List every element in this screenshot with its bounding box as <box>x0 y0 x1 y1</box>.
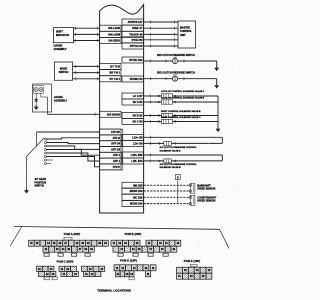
wire shift indicator row 3 <box>74 40 100 42</box>
wire contact 5 to ATP 1 <box>46 153 99 161</box>
shift solenoid coil 3 <box>158 115 160 117</box>
wire S/A DIAG <box>47 113 99 115</box>
wire clutch pc solenoid bottom SOLENOID VALVE B <box>144 160 223 162</box>
svg-text:LZA+ B5: LZA+ B5 <box>132 136 143 140</box>
svg-text:SPEED SENSOR: SPEED SENSOR <box>197 201 215 203</box>
svg-text:MC D16: MC D16 <box>133 195 143 199</box>
svg-text:SPEED SENSOR: SPEED SENSOR <box>197 189 215 191</box>
switch contact 8 <box>44 163 46 165</box>
terminal panel right cut mark <box>220 229 230 248</box>
wire PCM to MCU row 1 <box>144 21 178 23</box>
indicator lamp cluster <box>34 86 44 94</box>
svg-text:B: B <box>177 176 179 179</box>
wire clutch pc solenoid top SOLENOID VALVE B <box>144 154 223 156</box>
pin ATP P <box>100 164 121 170</box>
pin ATP 1 <box>100 158 121 164</box>
ground 3rd clutch pressure switch <box>216 84 218 86</box>
pin LZB+ B35 <box>122 152 144 158</box>
terminal panel top border <box>14 227 220 230</box>
clutch pc solenoid loop SOLENOID VALVE A <box>221 137 223 143</box>
wire PCM to MCU row 2 <box>144 27 178 29</box>
shift indicator box <box>54 28 74 43</box>
connector PCM E row 1 <box>177 267 183 273</box>
connector PCM D row 1 <box>114 265 120 271</box>
svg-text:3RD CLUTCH PRESSURE SWITCH: 3RD CLUTCH PRESSURE SWITCH <box>157 73 195 75</box>
ground 2nd clutch pressure switch <box>216 66 218 68</box>
pin BB T-N1 <box>100 70 121 76</box>
wire mainshaft speed sensor + <box>144 184 191 186</box>
connector PCM E latch <box>191 264 198 266</box>
wire shift indicator row 2 <box>74 33 100 35</box>
connector PCM A row 1 <box>29 240 35 246</box>
pin BY T-N1 <box>100 76 121 82</box>
svg-text:SH C B3: SH C B3 <box>133 120 144 124</box>
svg-text:BY T-N 1: BY T-N 1 <box>110 77 121 81</box>
pin MC D16 <box>122 194 144 200</box>
master control unit box <box>178 21 196 48</box>
pin ATP D4 <box>100 141 121 147</box>
pin PTOH B6 <box>122 37 144 43</box>
wire contact 1 to ATP R <box>46 138 99 139</box>
lamp wiring <box>35 93 37 99</box>
connector PCM C tabs <box>44 277 49 280</box>
PCM control module outline <box>100 5 144 213</box>
connector PCM B tabs <box>118 253 123 256</box>
connector PCM A row 2 <box>43 246 49 252</box>
pin VREF A7 <box>122 25 144 31</box>
wire contact 3 to ATP D3 <box>46 146 99 149</box>
pin GN-LADN <box>100 25 121 31</box>
wire contact 8 stub <box>46 163 51 165</box>
svg-text:ASSEMBLY: ASSEMBLY <box>54 48 67 51</box>
wire contact 7 stub <box>46 159 53 161</box>
connector PCM D row 2 <box>116 271 121 277</box>
pin LC-A B7 <box>122 93 144 99</box>
svg-text:VREF A7: VREF A7 <box>132 26 143 30</box>
countershaft speed sensor symbol <box>190 195 195 205</box>
pin XPSW1 B4 <box>122 76 144 82</box>
svg-text:SHIFT CONTROL SOLENOID VALVE B: SHIFT CONTROL SOLENOID VALVE B <box>161 110 201 113</box>
pin SH-A B1 <box>122 99 144 105</box>
svg-text:PCM C (31P): PCM C (31P) <box>57 259 74 263</box>
svg-text:SHIFT CONTROL SOLENOID VALVE C: SHIFT CONTROL SOLENOID VALVE C <box>161 116 201 119</box>
wire clutch pc solenoid top SOLENOID VALVE A <box>144 136 223 138</box>
svg-text:PCM E (16P): PCM E (16P) <box>184 259 201 263</box>
pin GN-JEDG <box>100 38 121 44</box>
ATP pin group frame <box>100 129 123 170</box>
clutch pc solenoid loop SOLENOID VALVE B <box>221 155 223 161</box>
shield drain wire <box>177 180 179 204</box>
svg-text:TERMINAL LOCATIONS: TERMINAL LOCATIONS <box>97 289 131 293</box>
pin SH-B B2 <box>122 113 144 119</box>
wire lock-up solenoid row 1 <box>144 95 218 97</box>
svg-text:SH A B1: SH A B1 <box>133 100 143 104</box>
wire contact 2 to ATP D4 <box>46 143 99 144</box>
svg-text:LZB+ B35: LZB+ B35 <box>131 153 143 157</box>
wire countershaft speed sensor + <box>144 196 191 198</box>
svg-text:ATP D3: ATP D3 <box>111 147 120 151</box>
svg-text:SH B B2: SH B B2 <box>133 114 144 118</box>
pin ATP NP <box>100 129 121 135</box>
wire contact 4 to ATP 2 <box>46 150 99 156</box>
pin BY T4B <box>100 63 121 69</box>
connector PCM B row 2 <box>113 246 119 252</box>
pin TN-SUP A6 <box>122 31 144 37</box>
wire 3rd clutch pressure switch <box>144 78 217 80</box>
pin ATP D3 <box>100 146 121 152</box>
switch contact 6 <box>44 156 46 158</box>
pin ATP 2 <box>100 152 121 158</box>
wire PCM to MCU row 5 <box>144 45 178 47</box>
svg-text:SOLENOID VALVE B: SOLENOID VALVE B <box>160 166 182 169</box>
pin ATP R <box>100 135 121 141</box>
3rd clutch pressure switch symbol <box>172 76 177 81</box>
svg-text:CONTROL: CONTROL <box>180 30 192 33</box>
connector PCM E row 2 <box>177 273 183 279</box>
wire shift solenoid row 4 <box>144 121 218 123</box>
svg-text:GN-JEDG: GN-JEDG <box>108 39 120 43</box>
gauge assembly box <box>33 84 52 112</box>
pin ATP5TB A17 <box>122 19 144 25</box>
pin PPTOH D3 <box>122 43 144 49</box>
diode <box>35 99 38 102</box>
pin XPT2H D12 <box>122 57 144 63</box>
svg-text:PCM D (16P): PCM D (16P) <box>120 259 137 263</box>
svg-text:BY T4 B: BY T4 B <box>110 64 120 68</box>
svg-text:MKSB D10: MKSB D10 <box>130 189 143 193</box>
wire drop to ground 3rd clutch <box>216 79 218 84</box>
clutch pc solenoid coil SOLENOID VALVE B <box>159 160 161 162</box>
pin MZSB D16 <box>122 201 144 207</box>
shield junction box B <box>175 175 180 180</box>
wire PCM to MCU row 4 <box>144 39 178 41</box>
2nd clutch pressure switch symbol <box>172 58 177 63</box>
svg-text:PPTOH D3: PPTOH D3 <box>130 44 143 48</box>
connector PCM D tab <box>129 277 134 280</box>
svg-text:ATP 2: ATP 2 <box>113 153 121 157</box>
wire clutch pc solenoid bottom SOLENOID VALVE A <box>144 142 223 144</box>
svg-text:ATP R: ATP R <box>113 136 121 140</box>
svg-text:S/A DIAGB: S/A DIAGB <box>107 112 120 116</box>
wire shift indicator row 1 <box>74 27 100 29</box>
ground solenoid valves <box>217 127 219 129</box>
svg-text:PCM A (32P): PCM A (32P) <box>64 232 80 236</box>
mainshaft speed sensor symbol <box>190 183 195 193</box>
switch arm <box>27 138 45 157</box>
pin LZB- B45 <box>122 158 144 164</box>
svg-text:ATP NP: ATP NP <box>111 130 120 134</box>
svg-text:PTOH B6: PTOH B6 <box>132 38 144 42</box>
svg-text:ATP 1: ATP 1 <box>113 159 121 163</box>
svg-text:COUNTERSHAFT: COUNTERSHAFT <box>197 196 217 199</box>
switch ground wire <box>26 157 28 190</box>
ground inside gauge assembly <box>35 105 37 107</box>
svg-text:ASSEMBLY: ASSEMBLY <box>54 99 67 102</box>
switch contact 4 <box>44 149 46 151</box>
solenoid ground bus <box>217 96 219 128</box>
wire mainshaft speed sensor - <box>144 190 191 192</box>
lamp output wire <box>40 93 42 97</box>
svg-text:A/T CLUTCH PRESSURE CONTROL: A/T CLUTCH PRESSURE CONTROL <box>160 163 198 166</box>
svg-text:SOLENOID VALVE A: SOLENOID VALVE A <box>160 150 182 153</box>
svg-text:SWITCH: SWITCH <box>59 71 69 74</box>
svg-text:LOCK-UP CONTROL SOLENOID VALVE: LOCK-UP CONTROL SOLENOID VALVE A <box>161 90 204 93</box>
svg-text:LC A B7: LC A B7 <box>133 94 143 98</box>
svg-text:ATP5TB A17: ATP5TB A17 <box>128 20 144 24</box>
svg-text:GN-LADN: GN-LADN <box>108 26 120 30</box>
lock-up solenoid coil 2 <box>158 101 160 103</box>
pin S/A DIAGB <box>100 111 121 117</box>
svg-text:XPSW1 B4: XPSW1 B4 <box>130 77 143 81</box>
shift solenoid coil 4 <box>158 121 160 123</box>
svg-text:ATP P: ATP P <box>113 165 121 169</box>
clutch pc solenoid coil SOLENOID VALVE A <box>159 143 161 145</box>
svg-text:BB T-N 1: BB T-N 1 <box>109 71 120 75</box>
svg-text:MASTER: MASTER <box>180 27 190 30</box>
wire PCM to MCU row 3 <box>144 33 178 35</box>
wire drop to ground 2nd clutch <box>216 61 218 67</box>
wire contact 6 to ATP P <box>46 157 99 167</box>
mode switch box <box>54 62 72 80</box>
wire countershaft speed sensor - <box>144 203 191 205</box>
wire lock-up solenoid row 2 <box>144 101 218 103</box>
svg-text:INDICATOR: INDICATOR <box>56 34 69 37</box>
pin LZA+ B5 <box>122 135 144 141</box>
connector PCM A tabs <box>44 253 49 256</box>
svg-text:PCM B (26P): PCM B (26P) <box>125 232 142 236</box>
pin MKSB D10 <box>122 188 144 194</box>
ground A/T gear position switch <box>26 189 28 191</box>
svg-text:LZB- B45: LZB- B45 <box>131 159 143 163</box>
wire mode switch row 2 <box>73 72 100 74</box>
A/T gear position switch common wire <box>37 131 100 133</box>
switch contact 3 <box>44 145 46 147</box>
switch contact 7 <box>44 159 46 161</box>
pin GN-LADM <box>100 31 121 37</box>
connector PCM A latch <box>64 237 72 240</box>
switch contact 1 <box>44 138 46 140</box>
connector PCM C row 1 <box>37 266 43 271</box>
svg-text:SWITCH: SWITCH <box>35 185 45 188</box>
svg-text:LOCK-UP CONTROL SOLENOID VALVE: LOCK-UP CONTROL SOLENOID VALVE B <box>161 97 205 100</box>
svg-text:A/T CLUTCH PRESSURE CONTROL: A/T CLUTCH PRESSURE CONTROL <box>160 146 198 149</box>
pin SH-C B3 <box>122 119 144 125</box>
terminal panel left cut mark <box>10 227 22 247</box>
connector PCM B row 1 <box>111 240 117 246</box>
pin LZA- B6 <box>122 141 144 147</box>
svg-text:2ND CLUTCH PRESSURE SWITCH: 2ND CLUTCH PRESSURE SWITCH <box>157 55 195 57</box>
svg-text:MZSB D16: MZSB D16 <box>130 202 143 206</box>
connector PCM C row 2 <box>39 271 45 276</box>
svg-text:XPT2H D12: XPT2H D12 <box>129 58 143 62</box>
wire 2nd clutch pressure switch <box>144 60 217 62</box>
wire shift solenoid row 3 <box>144 115 218 117</box>
wire mode switch row 1 <box>73 65 100 67</box>
svg-text:TN-SUP A6: TN-SUP A6 <box>129 32 143 36</box>
svg-text:LZA- B6: LZA- B6 <box>133 142 143 146</box>
switch contact 5 <box>44 152 46 154</box>
svg-text:GN-LADM: GN-LADM <box>108 32 120 36</box>
switch contact 2 <box>44 142 46 144</box>
svg-text:MAINSHAFT: MAINSHAFT <box>197 184 211 187</box>
svg-text:MB D15: MB D15 <box>133 183 143 187</box>
pin MB D15 <box>122 182 144 188</box>
svg-text:ATP D4: ATP D4 <box>111 142 120 146</box>
lock-up solenoid coil 1 <box>158 95 160 97</box>
wire mode switch row 3 <box>73 78 100 80</box>
svg-text:UNIT: UNIT <box>180 34 186 37</box>
